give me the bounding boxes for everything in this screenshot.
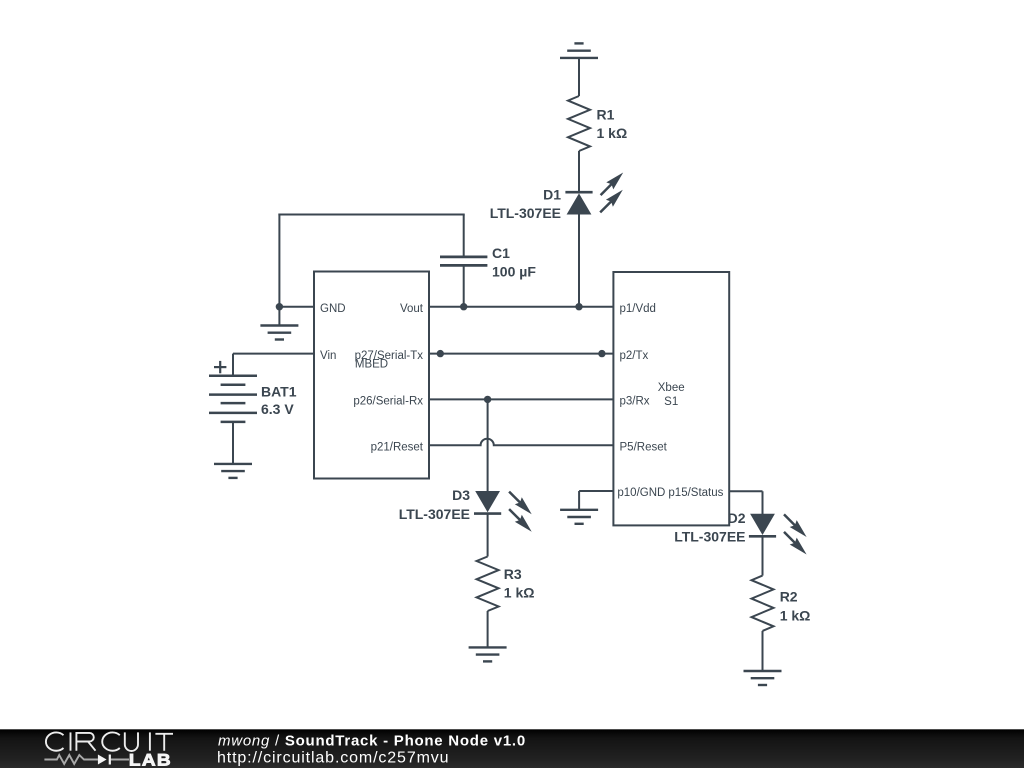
svg-text:BAT1: BAT1 xyxy=(261,384,297,400)
svg-text:LTL-307EE: LTL-307EE xyxy=(399,506,470,522)
wire p15/Status xyxy=(729,490,762,492)
svg-text:LTL-307EE: LTL-307EE xyxy=(490,205,561,221)
CircuitLab logo resistor-diode xyxy=(44,755,129,764)
wire p10/GND pin xyxy=(579,490,613,492)
svg-text:p1/Vdd: p1/Vdd xyxy=(620,303,656,315)
wire junction to ground xyxy=(278,307,280,326)
svg-text:LAB: LAB xyxy=(129,751,172,768)
svg-text:1 kΩ: 1 kΩ xyxy=(780,607,811,623)
svg-text:100 µF: 100 µF xyxy=(492,264,536,280)
IC MBED box xyxy=(314,272,429,479)
node dot Tx right xyxy=(598,350,605,357)
svg-text:http://circuitlab.com/c257mvu: http://circuitlab.com/c257mvu xyxy=(217,749,449,766)
resistor R1 xyxy=(568,96,590,151)
svg-text:R2: R2 xyxy=(780,589,798,605)
wire GND junction up xyxy=(278,214,280,307)
svg-text:Xbee: Xbee xyxy=(658,382,685,394)
wire MBED GND pin xyxy=(279,306,314,308)
svg-text:GND: GND xyxy=(320,303,346,315)
LED D2 xyxy=(749,514,807,555)
svg-text:p21/Reset: p21/Reset xyxy=(371,442,424,454)
ground (R3) xyxy=(469,647,507,661)
wire D2 to R2 xyxy=(762,536,764,575)
wire R2 to ground xyxy=(762,631,764,671)
wire R3 to ground xyxy=(487,611,489,647)
svg-text:1 kΩ: 1 kΩ xyxy=(597,125,628,141)
svg-text:1 kΩ: 1 kΩ xyxy=(504,585,535,601)
svg-text:p26/Serial-Rx: p26/Serial-Rx xyxy=(353,396,423,408)
wire down to D2 xyxy=(762,491,764,514)
svg-text:p15/Status: p15/Status xyxy=(668,487,723,499)
resistor R3 xyxy=(477,557,499,612)
wire p27/Serial-Tx to p2/Tx xyxy=(429,353,613,355)
wire D3 to R3 xyxy=(487,514,489,557)
junction D1 on Vdd net xyxy=(575,303,582,310)
svg-text:Vin: Vin xyxy=(320,350,336,362)
junction D3 branch on Rx net xyxy=(484,396,491,403)
CircuitLab logo CIRCUIT xyxy=(46,732,173,751)
IC Xbee box xyxy=(613,272,729,525)
battery plus sign xyxy=(214,361,226,373)
svg-text:D1: D1 xyxy=(543,186,561,202)
LED D3 xyxy=(474,491,532,532)
svg-text:S1: S1 xyxy=(664,396,678,408)
wire Vin to battery xyxy=(233,353,314,355)
svg-text:Vout: Vout xyxy=(400,303,424,315)
wire p21/Reset to P5/Reset with hop xyxy=(429,439,613,446)
resistor R2 xyxy=(752,576,774,631)
wire down to battery + xyxy=(232,354,234,376)
battery BAT1 xyxy=(209,376,257,422)
junction GND node xyxy=(276,303,283,310)
wire down to C1 top plate xyxy=(463,215,465,257)
svg-text:R1: R1 xyxy=(597,107,615,123)
svg-text:P5/Reset: P5/Reset xyxy=(620,442,668,454)
node dot Tx left xyxy=(437,350,444,357)
ground (battery) xyxy=(214,464,252,478)
wire p26/Serial-Rx to p3/Rx xyxy=(429,398,613,400)
svg-text:6.3 V: 6.3 V xyxy=(261,401,294,417)
wire down to ground xyxy=(578,491,580,510)
svg-text:R3: R3 xyxy=(504,566,522,582)
svg-text:p3/Rx: p3/Rx xyxy=(620,396,650,408)
wire C1 bottom plate to Vout net xyxy=(463,265,465,306)
wire battery - to ground xyxy=(232,422,234,464)
svg-text:C1: C1 xyxy=(492,245,510,261)
wire top horizontal GND net xyxy=(278,214,464,216)
wire R1 to D1 xyxy=(578,151,580,192)
wire Vout to p1/Vdd xyxy=(429,306,613,308)
wire D1 to Vdd net xyxy=(578,214,580,307)
svg-text:p27/Serial-Tx: p27/Serial-Tx xyxy=(355,350,424,362)
svg-text:mwong / SoundTrack - Phone Nod: mwong / SoundTrack - Phone Node v1.0 xyxy=(218,733,526,750)
wire ground to R1 xyxy=(578,58,580,96)
capacitor C1 xyxy=(440,257,487,266)
svg-text:D2: D2 xyxy=(728,510,746,526)
svg-text:p10/GND: p10/GND xyxy=(617,487,665,499)
junction C1 on Vdd net xyxy=(460,303,467,310)
svg-text:p2/Tx: p2/Tx xyxy=(620,350,649,362)
ground (MBED GND) xyxy=(260,326,298,340)
ground (Xbee GND) xyxy=(560,510,598,524)
svg-text:LTL-307EE: LTL-307EE xyxy=(674,528,745,544)
ground (R2) xyxy=(744,671,782,685)
LED D1 xyxy=(565,173,623,215)
ground (inverted, top of R1) xyxy=(560,43,598,58)
svg-text:D3: D3 xyxy=(452,487,470,503)
wire Rx junction down to D3 xyxy=(487,399,489,491)
